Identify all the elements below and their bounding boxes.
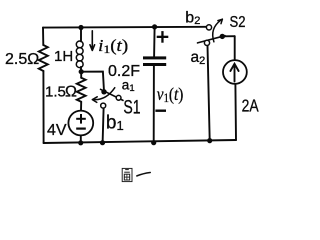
svg-text:1.5: 1.5	[45, 84, 66, 101]
svg-text:2A: 2A	[242, 96, 259, 116]
svg-text:Ω: Ω	[27, 51, 39, 68]
svg-text:Ω: Ω	[65, 84, 77, 101]
svg-text:S2: S2	[230, 14, 246, 31]
svg-text:4V: 4V	[47, 122, 67, 139]
svg-text:i1(t): i1(t)	[98, 36, 128, 56]
svg-text:1H: 1H	[54, 48, 73, 65]
svg-text:b1: b1	[106, 112, 124, 133]
svg-text:v1(t): v1(t)	[157, 84, 184, 105]
svg-text:2.5: 2.5	[5, 51, 27, 68]
svg-text:a2: a2	[191, 49, 206, 67]
svg-text:b2: b2	[185, 9, 200, 27]
svg-text:S1: S1	[123, 98, 140, 119]
